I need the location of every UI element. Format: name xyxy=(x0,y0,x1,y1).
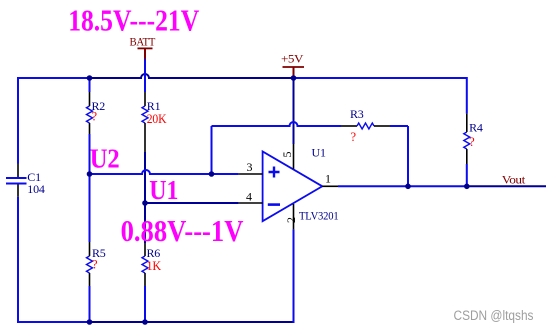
junction dot at R6/bottom rail xyxy=(142,319,148,325)
resistor R1 xyxy=(142,92,166,152)
power symbol +5V bar xyxy=(283,66,305,68)
wire: U1 node down to R6 (dark) xyxy=(144,203,146,243)
svg-text:R6: R6 xyxy=(147,246,161,260)
wire: feedback horizontal to R3, hop over +5V wire at x=293.5 xyxy=(212,122,342,126)
pin 5 stub xyxy=(293,144,295,169)
wire: +5V stub to pin5 xyxy=(293,78,295,144)
wire: output net R4 node to right edge (Vout) xyxy=(467,185,546,187)
junction dot at U2 node xyxy=(87,171,93,177)
svg-text:3: 3 xyxy=(247,160,253,174)
wire: top rail right segment (293.5,78)-(466.8,78) xyxy=(294,77,467,79)
resistor R5 xyxy=(87,242,106,286)
wire: top rail left segment (18,78)-(89.5,78) xyxy=(17,77,90,79)
svg-text:18.5V---21V: 18.5V---21V xyxy=(68,2,199,37)
svg-text:TLV3201: TLV3201 xyxy=(299,209,339,223)
junction dot at feedback/pin3 wire xyxy=(209,171,215,177)
minus symbol xyxy=(268,203,280,206)
svg-text:CSDN @ltqshs: CSDN @ltqshs xyxy=(454,308,534,323)
wire: U1 node to pin4 (dark) xyxy=(145,202,239,204)
junction dot at R5/bottom rail xyxy=(87,319,93,325)
wire: R3 right to corner xyxy=(390,125,408,127)
wire: top rail middle segment with hop over BATT wire at x=145 xyxy=(90,74,294,78)
wire: R6 bottom to bottom rail xyxy=(144,286,146,322)
resistor R2 xyxy=(87,92,106,134)
junction dot at R4/output xyxy=(464,184,470,190)
svg-text:BATT: BATT xyxy=(130,37,156,49)
wire: BATT to R1 blue segment xyxy=(144,59,146,92)
svg-text:20K: 20K xyxy=(147,112,167,126)
wire: bottom rail right segment xyxy=(90,321,294,323)
wire: U2 node to R5 xyxy=(89,174,91,242)
wire: bottom rail left segment xyxy=(17,321,90,323)
pin 1 stub xyxy=(322,185,338,187)
wire: U2 node to pin3, hop over R1 wire at x=146 xyxy=(90,170,239,174)
svg-text:5: 5 xyxy=(280,152,294,158)
wire: R4 bottom to output net xyxy=(466,164,468,186)
op-amp U1 TLV3201 xyxy=(239,144,339,229)
svg-text:+5V: +5V xyxy=(281,54,304,66)
resistor R6 xyxy=(142,243,161,286)
junction dot at R2/top rail xyxy=(87,75,93,81)
triangle body xyxy=(263,152,323,222)
wire: R2 bottom to U2 node xyxy=(89,134,91,174)
pin 2 stub xyxy=(293,204,295,229)
resistor R3 (horizontal) xyxy=(341,107,390,144)
wire: pin2 ground wire down from op-amp xyxy=(293,229,295,323)
wire: left vertical rail x=18 (top part, to C1) xyxy=(17,78,19,164)
svg-text:U1: U1 xyxy=(149,175,178,205)
svg-text:R1: R1 xyxy=(147,99,161,113)
svg-text:?: ? xyxy=(351,130,357,144)
plus symbol xyxy=(269,167,280,178)
capacitor C1 xyxy=(6,164,45,197)
junction dot at +5V/top rail xyxy=(291,75,297,81)
svg-text:?: ? xyxy=(92,258,98,272)
svg-text:R3: R3 xyxy=(350,107,364,121)
svg-text:104: 104 xyxy=(27,182,45,196)
wire: right rail down to R4 xyxy=(466,77,468,114)
wire: R1 bottom to U1 node xyxy=(144,152,146,203)
junction dot at feedback/output xyxy=(405,184,411,190)
wire: feedback vertical at x=211.5 xyxy=(211,126,213,174)
wire: feedback corner down to output xyxy=(407,126,409,186)
svg-text:1K: 1K xyxy=(147,259,162,273)
resistor R4 xyxy=(464,114,483,164)
svg-text:Vout: Vout xyxy=(502,175,526,187)
svg-text:U2: U2 xyxy=(90,144,120,174)
svg-text:?: ? xyxy=(92,110,98,124)
wire: output net pin1 to R4 node xyxy=(338,185,467,187)
wire: left vertical rail x=18 (bottom part, C1 to bottom rail) xyxy=(17,197,19,322)
power symbol BATT stub xyxy=(144,48,146,59)
pin 4 stub xyxy=(239,202,263,204)
svg-text:U1: U1 xyxy=(312,146,326,160)
wire: R5 bottom to bottom rail xyxy=(89,286,91,322)
svg-text:1: 1 xyxy=(325,172,331,186)
power symbol BATT bar xyxy=(138,47,153,49)
wire: R2 top (rail to R2) xyxy=(89,78,91,92)
svg-text:4: 4 xyxy=(246,190,252,204)
svg-text:R4: R4 xyxy=(469,121,483,135)
junction dot at U1 node xyxy=(142,200,148,206)
svg-text:?: ? xyxy=(469,135,475,149)
power symbol +5V stub xyxy=(293,67,295,78)
pin 3 stub xyxy=(239,173,263,175)
svg-text:2: 2 xyxy=(284,217,298,223)
svg-text:0.88V---1V: 0.88V---1V xyxy=(121,213,244,248)
